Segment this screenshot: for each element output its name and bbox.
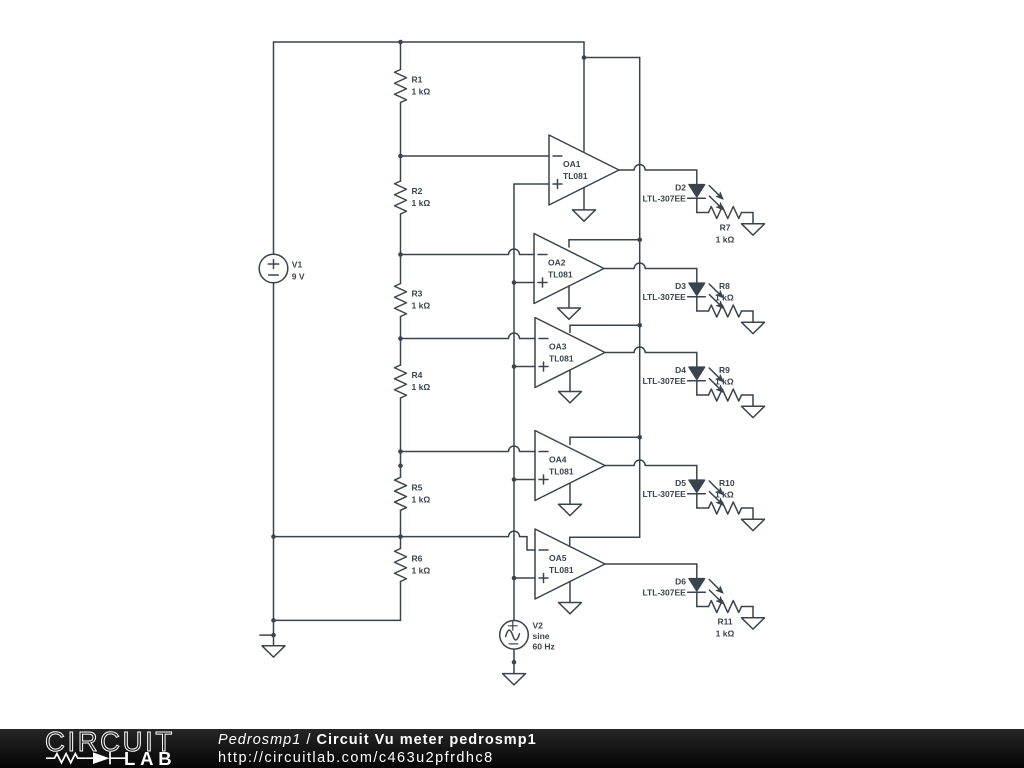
wire [513,184,515,620]
wire [752,311,754,322]
wire [639,58,641,538]
wire [400,398,402,452]
svg-text:LTL-307EE: LTL-307EE [643,193,687,203]
svg-text:OA4: OA4 [549,455,567,465]
wire [400,156,402,181]
svg-text:R6: R6 [412,554,423,564]
svg-text:TL081: TL081 [549,467,574,477]
svg-text:TL081: TL081 [548,270,573,280]
wire [742,212,754,214]
voltage source V1 [259,254,288,283]
ground [559,603,582,614]
junction [637,435,642,440]
wire [742,310,754,312]
svg-text:1 kΩ: 1 kΩ [716,235,735,245]
svg-text:R11: R11 [717,617,732,627]
ground [742,519,765,530]
junction [512,280,517,285]
svg-text:OA3: OA3 [549,342,567,352]
wire [568,286,570,308]
wire [569,582,571,603]
wire [584,57,640,59]
wire [273,283,275,646]
wire [569,239,640,241]
wire [697,394,709,396]
wire [696,381,698,396]
junction [271,618,276,623]
svg-text:TL081: TL081 [549,565,574,575]
wire [514,282,534,284]
svg-text:D2: D2 [675,182,686,192]
svg-text:LTL-307EE: LTL-307EE [643,292,687,302]
svg-text:1 kΩ: 1 kΩ [412,87,431,97]
resistor R4 [395,365,407,398]
wire [583,188,585,210]
wire [604,263,697,269]
wire [696,353,698,367]
junction [512,576,517,581]
wire [605,460,697,465]
LED D2 [688,185,724,210]
svg-text:D4: D4 [675,365,686,375]
wire [274,619,401,621]
wire [569,437,571,444]
svg-text:OA1: OA1 [563,159,581,169]
svg-text:LTL-307EE: LTL-307EE [643,489,687,499]
svg-text:R1: R1 [412,75,423,85]
junction [582,55,587,60]
wire [514,577,535,579]
resistor R11 [709,601,742,613]
LED D3 [688,283,724,308]
wire [697,310,709,312]
op-amp OA1 [549,135,619,205]
wire [514,183,549,185]
wire [752,508,754,519]
svg-text:V1: V1 [292,260,303,270]
op-amp OA5 [535,529,605,599]
wire [583,42,585,151]
wire [570,436,640,438]
svg-text:LTL-307EE: LTL-307EE [643,587,687,597]
wire [697,212,709,214]
ground [262,646,285,657]
svg-text:D6: D6 [675,576,686,586]
svg-text:1 kΩ: 1 kΩ [412,382,431,392]
svg-text:1 kΩ: 1 kΩ [715,292,734,302]
wire [697,507,709,509]
wire [752,607,754,618]
wire [569,325,571,332]
wire [401,249,535,255]
wire [569,370,571,392]
wire [400,214,402,255]
wire [400,103,402,157]
svg-text:R7: R7 [720,223,731,233]
svg-text:R10: R10 [719,478,735,488]
svg-text:1 kΩ: 1 kΩ [715,489,734,499]
wire [570,536,640,538]
junction [398,252,403,257]
wire [742,394,754,396]
svg-text:TL081: TL081 [549,354,574,364]
svg-text:60 Hz: 60 Hz [533,642,555,652]
ground [573,210,596,221]
resistor R5 [395,477,407,510]
wire [400,582,402,621]
wire [400,255,402,284]
wire [605,563,697,565]
svg-text:R4: R4 [412,370,423,380]
svg-text:LTL-307EE: LTL-307EE [643,376,687,386]
wire [570,324,640,326]
ground [742,406,765,417]
wire [696,297,698,312]
wire [752,395,754,406]
wire [742,507,754,509]
junction [398,154,403,159]
wire [696,592,698,607]
junction [637,238,642,243]
svg-text:1 kΩ: 1 kΩ [412,198,431,208]
LED D6 [688,579,724,604]
svg-text:R5: R5 [412,483,423,493]
ground [503,674,526,685]
wire [401,155,550,157]
wire [400,510,402,536]
wire [400,452,402,478]
wire [696,494,698,509]
wire [742,606,754,608]
wire [513,649,515,674]
junction [271,534,276,539]
wire [619,165,697,171]
wire [514,479,535,481]
op-amp OA4 [535,431,605,501]
wire [400,317,402,339]
wire [696,170,698,184]
resistor R1 [395,70,407,103]
junction [398,40,403,45]
svg-text:R8: R8 [719,281,730,291]
svg-text:R9: R9 [719,365,730,375]
junction [398,449,403,454]
junction [512,364,517,369]
junction [398,336,403,341]
ground [558,308,581,319]
wire [400,42,402,70]
op-amp OA3 [535,318,605,388]
wire [401,446,536,452]
svg-text:D3: D3 [675,281,686,291]
wire [568,240,570,247]
wire [273,42,275,254]
wire [274,531,528,537]
resistor R8 [709,305,742,317]
resistor R3 [395,284,407,317]
LED D5 [688,480,724,505]
svg-text:1 kΩ: 1 kΩ [715,376,734,386]
junction [512,660,517,665]
wire [401,333,536,339]
wire [697,606,709,608]
svg-text:1 kΩ: 1 kΩ [412,566,431,576]
resistor R7 [709,207,742,219]
junction [271,633,276,638]
wire [400,339,402,366]
svg-text:V2: V2 [533,621,544,631]
svg-text:D5: D5 [675,478,686,488]
ground [559,392,582,403]
wire [569,537,571,546]
wire [696,466,698,480]
resistor R9 [709,389,742,401]
ground [742,618,765,629]
svg-text:OA5: OA5 [549,553,567,563]
wire [696,269,698,283]
op-amp OA2 [534,234,604,304]
junction [398,463,403,468]
wire [752,213,754,224]
wire [526,537,528,550]
svg-text:1 kΩ: 1 kΩ [716,629,735,639]
plot title [218,732,537,748]
svg-text:TL081: TL081 [563,171,588,181]
svg-text:OA2: OA2 [548,258,566,268]
ground [742,322,765,333]
wire [274,41,585,43]
wire [569,483,571,504]
wire [696,198,698,213]
svg-text:1 kΩ: 1 kΩ [412,495,431,505]
resistor R10 [709,502,742,514]
wire [696,564,698,578]
svg-text:9 V: 9 V [292,271,305,281]
svg-text:1 kΩ: 1 kΩ [412,301,431,311]
junction [637,323,642,328]
LED D4 [688,367,724,392]
resistor R6 [395,549,407,582]
CircuitLab logo [0,729,220,768]
voltage source V2 [500,621,529,650]
svg-text:sine: sine [533,631,550,641]
junction [512,477,517,482]
wire [527,549,535,551]
junction [398,534,403,539]
ground [742,224,765,235]
svg-text:R2: R2 [412,186,423,196]
resistor R2 [395,181,407,214]
ground [559,504,582,515]
wire [514,366,535,368]
wire [400,537,402,549]
wire [605,347,697,353]
wire [260,634,274,636]
svg-text:R3: R3 [412,289,423,299]
